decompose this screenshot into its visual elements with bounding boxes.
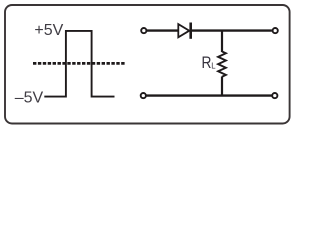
terminal top-left — [141, 28, 146, 33]
border frame — [5, 5, 290, 124]
resistor RL zigzag — [218, 52, 226, 77]
square wave trace — [44, 31, 114, 97]
dashed zero line — [33, 62, 125, 65]
svg-text:–5V: –5V — [15, 89, 44, 106]
wire bottom rail — [146, 94, 271, 96]
terminal top-right — [273, 28, 278, 33]
wire top rail left — [147, 29, 178, 31]
wire top rail right — [191, 29, 272, 31]
terminal bottom-left — [141, 93, 146, 98]
svg-text:L: L — [211, 61, 216, 70]
svg-text:+5V: +5V — [34, 22, 63, 39]
terminal bottom-right — [272, 93, 277, 98]
diode D1 triangle — [178, 24, 189, 37]
svg-text:R: R — [202, 54, 212, 72]
wire resistor bottom lead — [221, 77, 223, 96]
wire resistor top lead — [221, 30, 223, 53]
diode D1 cathode bar — [189, 23, 192, 39]
